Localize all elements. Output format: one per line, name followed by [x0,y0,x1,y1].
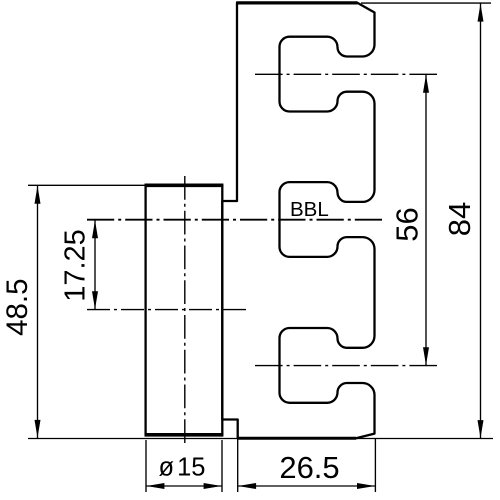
hinge leaf outline [222,3,374,438]
svg-text:56: 56 [389,207,424,241]
plate top edge thick [236,1,357,4]
dim o15 line [146,485,222,487]
bottom slot centerline [255,365,437,367]
dim 17.25 line [94,220,96,310]
plate bottom edge thick [237,437,356,440]
top slot centerline [255,73,437,75]
48.5 top extension [28,184,145,186]
svg-text:ø15: ø15 [159,454,206,482]
barrel vertical centerline [184,176,186,443]
barrel bottom edge [145,433,224,437]
o15 right extension [221,440,223,492]
barrel right edge [221,185,223,436]
dim 56 line [425,74,427,365]
dim 26.5 line [238,485,376,487]
dim 84 line [480,3,482,438]
dim 48.5 line [37,185,39,438]
barrel left edge [144,185,146,436]
svg-text:17.25: 17.25 [60,229,92,302]
BBL centerline [87,219,382,221]
svg-text:48.5: 48.5 [1,278,34,335]
svg-text:BBL: BBL [290,198,329,221]
26.5 left extension [237,439,239,493]
26.5 right extension [374,439,376,493]
svg-text:26.5: 26.5 [279,450,339,485]
o15 left extension [145,440,147,492]
barrel horizontal centerline [87,309,246,311]
top extension line 84 [361,2,491,4]
barrel top edge [145,184,224,188]
svg-text:84: 84 [442,202,477,236]
bottom extension line [28,438,493,440]
